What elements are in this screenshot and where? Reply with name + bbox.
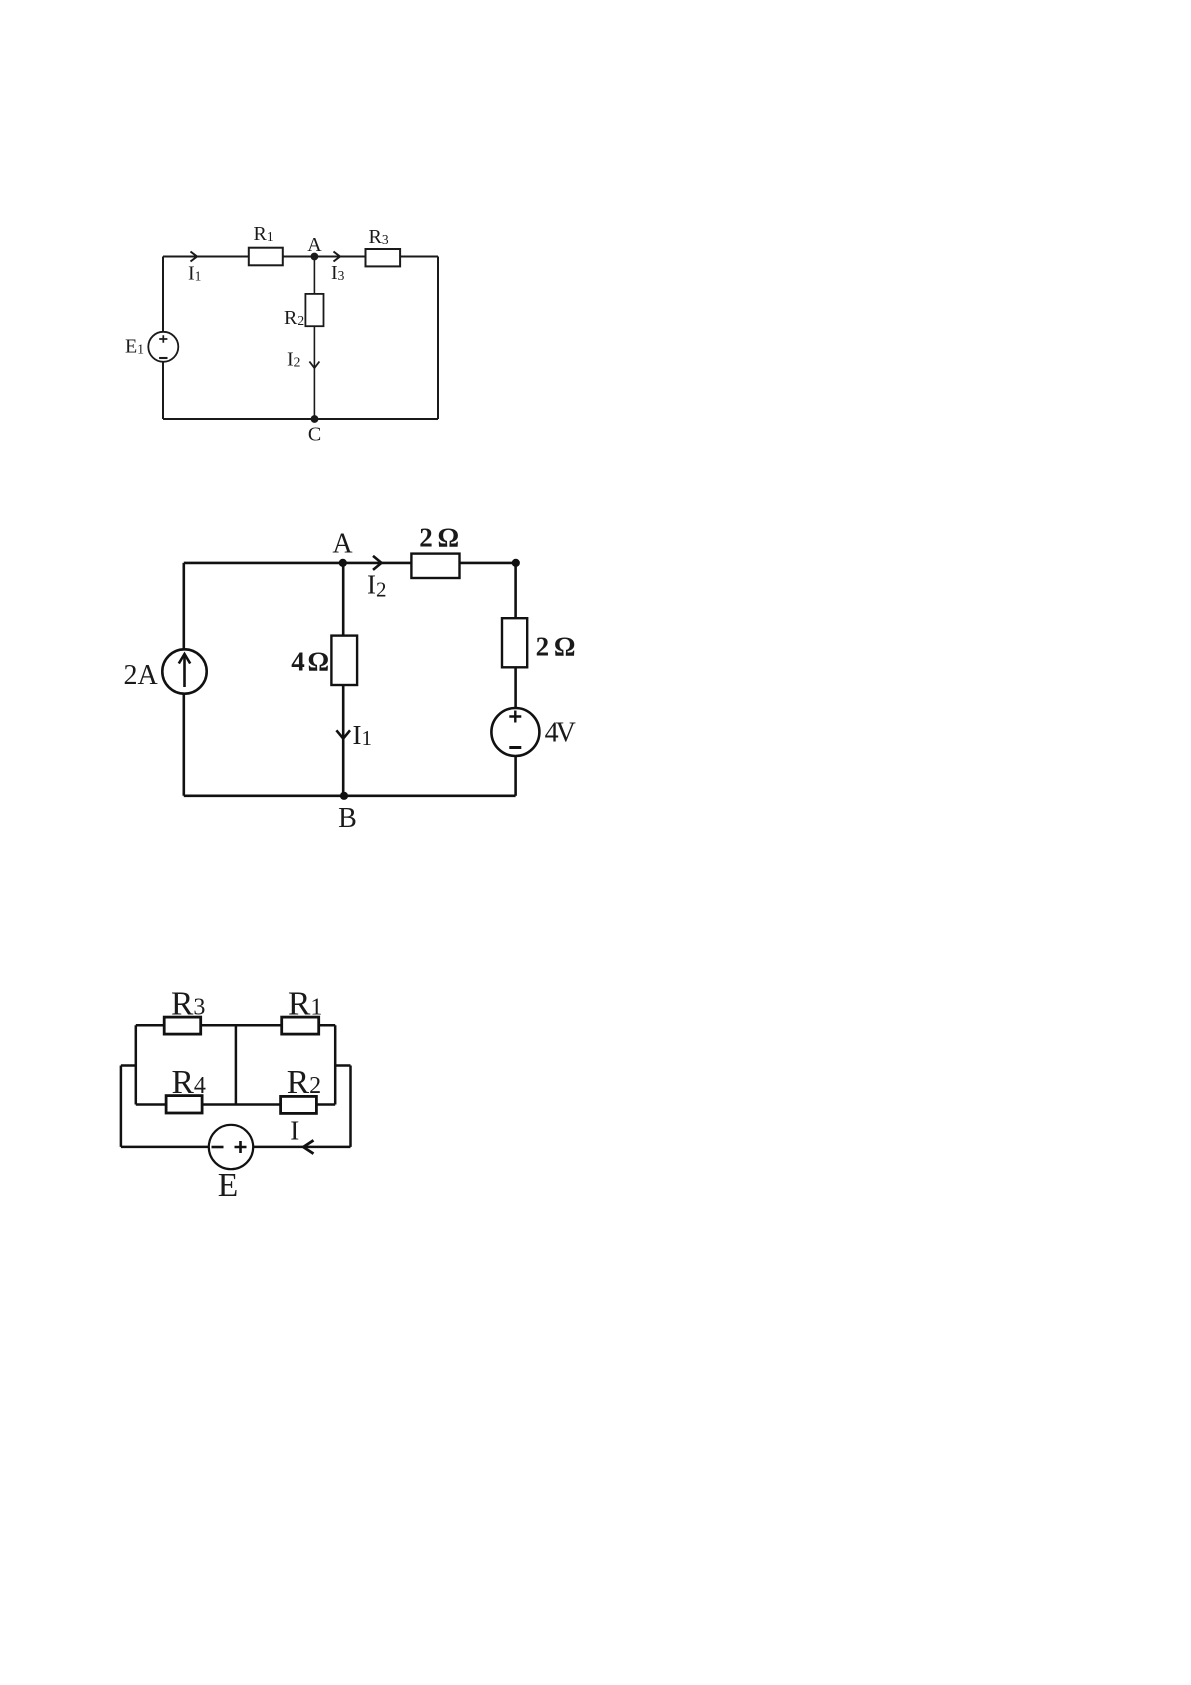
wire inner left vertical: [135, 1025, 138, 1104]
wire right node down to 2ohm vertical: [514, 563, 517, 618]
E plus sign: [235, 1141, 247, 1153]
wire left above E1: [162, 257, 164, 332]
resistor R4: [166, 1096, 202, 1113]
resistor R2: [281, 1096, 317, 1113]
resistor 2ohm top: [411, 554, 459, 578]
2A arrow up: [183, 656, 186, 687]
resistor R3: [164, 1017, 201, 1034]
wire bottom left to E: [121, 1146, 209, 1149]
svg-text:2 Ω: 2 Ω: [419, 522, 458, 552]
node right dot: [512, 559, 520, 567]
wire right jog: [335, 1064, 350, 1067]
wire 4V source to bottom right corner: [514, 756, 517, 796]
wire top-left E1 to R1: [163, 256, 249, 258]
svg-text:2 Ω: 2 Ω: [536, 632, 575, 662]
wire 2ohm box to right node: [460, 562, 516, 565]
node A dot: [311, 253, 319, 261]
wire left above 2A source: [183, 563, 186, 649]
wire node A down to 4ohm: [342, 563, 345, 636]
svg-text:E: E: [218, 1167, 238, 1204]
4V plus sign: [509, 711, 521, 723]
resistor R2: [305, 294, 323, 326]
source 2A circle: [162, 649, 206, 693]
wire 2ohm vertical to 4V source: [514, 667, 517, 708]
wire 4ohm down to node B: [342, 685, 345, 796]
E1 minus sign: [159, 357, 167, 359]
source E1 circle: [148, 332, 178, 362]
node A dot: [339, 559, 347, 567]
current arrow I2: [309, 362, 319, 369]
wire right side: [437, 257, 439, 420]
wire top from left corner to node A: [184, 562, 343, 565]
svg-text:4V: 4V: [545, 718, 576, 749]
resistor R3: [366, 249, 401, 266]
wire top row left segment: [136, 1024, 164, 1027]
current arrow I2: [373, 556, 382, 570]
current arrow I1: [336, 730, 350, 738]
svg-text:2A: 2A: [123, 660, 158, 691]
node B dot: [340, 792, 348, 800]
wire row2 right segment: [316, 1103, 335, 1106]
current arrow I: [303, 1140, 313, 1153]
E1 plus sign: [159, 335, 167, 342]
resistor R1: [249, 248, 283, 266]
node C dot: [311, 415, 319, 423]
wire node A to R3: [314, 256, 365, 258]
wire middle vertical: [235, 1025, 238, 1104]
wire top row between R3 and R1: [201, 1024, 282, 1027]
resistor 2ohm right: [502, 618, 527, 667]
svg-text:B: B: [338, 803, 357, 834]
current arrow I1: [191, 252, 198, 262]
wire left below 2A source: [183, 694, 186, 796]
4V minus sign: [509, 746, 521, 749]
svg-text:A: A: [307, 234, 322, 256]
wire left below E1: [162, 362, 164, 419]
wire row2 left segment: [136, 1103, 166, 1106]
wire node A to R2: [313, 257, 315, 294]
wire node A to 2ohm box: [343, 562, 412, 565]
wire outer right vertical: [349, 1066, 352, 1147]
wire left jog: [121, 1064, 136, 1067]
wire bottom: [163, 418, 438, 420]
wire top row right segment: [319, 1024, 336, 1027]
resistor 4ohm: [331, 636, 357, 685]
E minus sign: [212, 1146, 224, 1149]
wire bottom E to right: [253, 1146, 350, 1149]
svg-text:I: I: [290, 1116, 299, 1146]
source 4V circle: [491, 708, 539, 756]
wire outer left vertical: [120, 1066, 123, 1147]
svg-text:4 Ω: 4 Ω: [291, 646, 328, 676]
source E circle: [209, 1125, 253, 1169]
wire row2 between R4 and R2: [202, 1103, 281, 1106]
svg-text:C: C: [308, 424, 321, 446]
wire inner right vertical: [334, 1025, 337, 1104]
wire R3 to top-right corner: [400, 256, 438, 258]
resistor R1: [282, 1017, 319, 1034]
current arrow I3: [334, 252, 341, 262]
wire R2 to node C: [313, 326, 315, 419]
wire bottom: [184, 794, 516, 797]
svg-text:A: A: [332, 529, 353, 560]
wire R1 to node A: [283, 256, 315, 258]
